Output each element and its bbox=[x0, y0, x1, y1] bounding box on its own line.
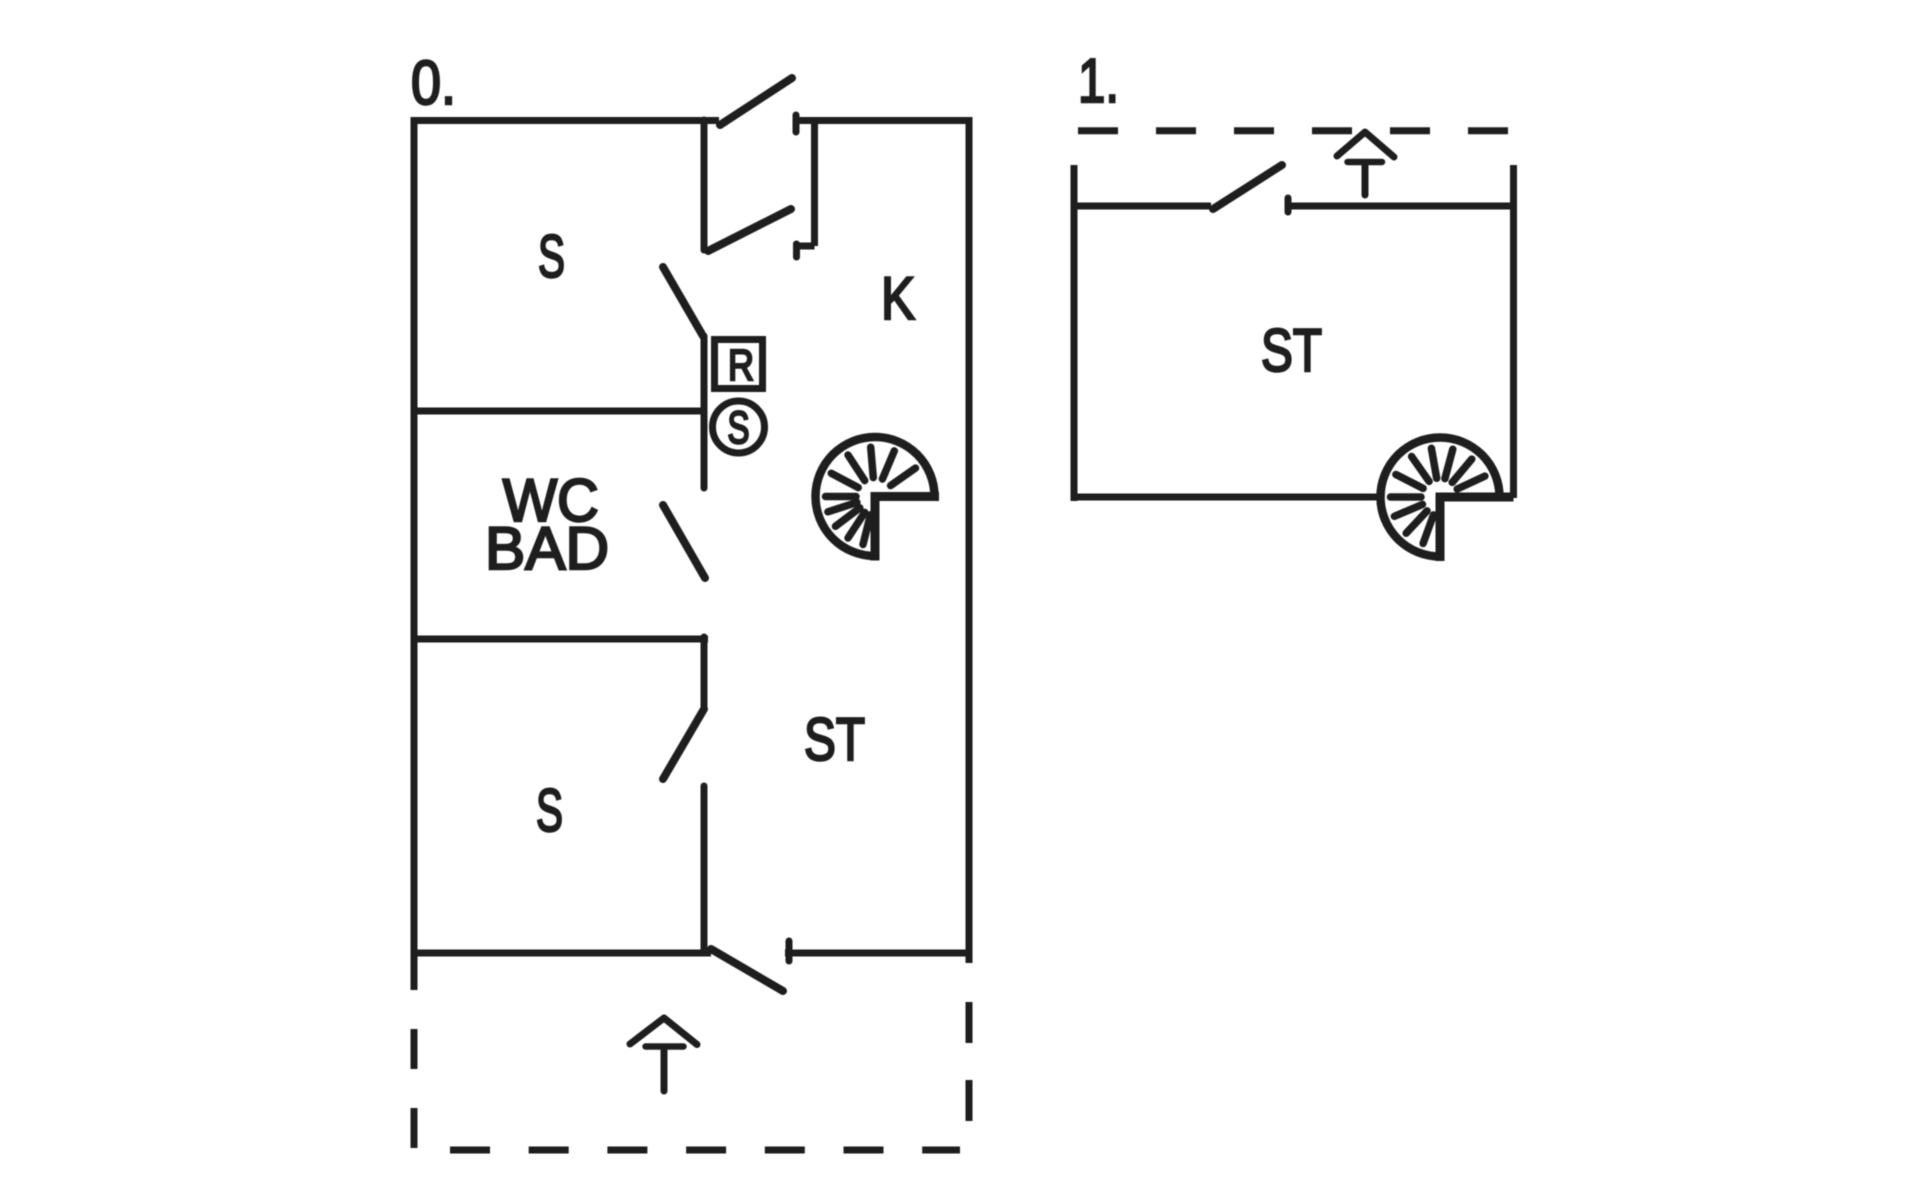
svg-text:BAD: BAD bbox=[485, 515, 609, 582]
top wall plan1 (left of door) bbox=[1074, 203, 1211, 210]
top dashed wall plan1 bbox=[1078, 127, 1509, 134]
door frame tick plan1 bbox=[1285, 198, 1292, 212]
bottom outer wall plan0 (right of entry) bbox=[785, 950, 969, 957]
spiral staircase plan0: treads bbox=[826, 447, 916, 544]
kitchen partition end tick bbox=[793, 244, 800, 257]
divider wall WC BAD / S bottom bbox=[411, 636, 708, 643]
interior corridor wall segment 2 bbox=[701, 336, 708, 488]
interior corridor wall segment 3 bbox=[701, 637, 708, 708]
spiral staircase plan0: notch edges bbox=[875, 497, 939, 561]
door leaf bottom entrance bbox=[711, 949, 783, 991]
svg-text:R: R bbox=[728, 341, 754, 390]
spiral staircase plan0: outer arc bbox=[816, 437, 935, 556]
door leaf bedroom S bottom bbox=[663, 709, 704, 779]
left outer wall plan1 bbox=[1071, 165, 1078, 501]
spiral staircase plan1: notch edges bbox=[1440, 497, 1514, 561]
svg-text:ST: ST bbox=[1261, 317, 1322, 384]
entrance arrow plan0: T stem bbox=[661, 1049, 668, 1091]
door leaf hall/kitchen bbox=[708, 209, 791, 251]
left outer wall plan0 bbox=[411, 117, 418, 990]
divider wall S / WC BAD bbox=[411, 408, 704, 415]
symbol circle S bbox=[713, 401, 765, 453]
interior corridor wall segment 4 bbox=[701, 786, 708, 953]
top wall plan1 (right of door) bbox=[1285, 203, 1514, 210]
door frame tick bottom wall bbox=[786, 941, 793, 961]
entrance arrow plan1: T bar bbox=[1348, 159, 1383, 166]
top outer wall plan0 (right of entry door) bbox=[793, 117, 969, 124]
svg-text:S: S bbox=[538, 223, 565, 290]
radiator box R bbox=[715, 340, 763, 389]
door leaf WC BAD bbox=[663, 505, 705, 578]
entrance arrow plan1: T stem bbox=[1362, 164, 1369, 195]
right dashed terrace wall bbox=[966, 1002, 973, 1122]
right outer wall plan0 bbox=[966, 117, 973, 963]
svg-text:ST: ST bbox=[804, 706, 865, 773]
svg-text:S: S bbox=[728, 402, 750, 453]
bottom dashed terrace wall bbox=[450, 1147, 960, 1154]
svg-text:1.: 1. bbox=[1078, 47, 1119, 116]
bottom outer wall plan0 (left of entry) bbox=[411, 950, 711, 957]
spiral staircase plan1: treads bbox=[1391, 448, 1485, 543]
door leaf plan1 bbox=[1213, 165, 1282, 209]
svg-text:S: S bbox=[536, 777, 563, 844]
kitchen partition vertical bbox=[811, 120, 818, 246]
spiral staircase plan1: outer arc bbox=[1381, 438, 1500, 557]
svg-text:0.: 0. bbox=[411, 49, 456, 118]
interior corridor wall segment 1 bbox=[701, 120, 708, 250]
entrance arrow plan1: chevron bbox=[1337, 132, 1394, 157]
left dashed terrace wall bbox=[411, 1029, 418, 1148]
svg-text:K: K bbox=[881, 265, 915, 332]
door frame tick top wall bbox=[793, 115, 800, 132]
entrance arrow plan0: chevron bbox=[630, 1018, 697, 1045]
right outer wall plan1 bbox=[1510, 165, 1517, 498]
bottom wall plan1 bbox=[1074, 494, 1378, 501]
door leaf bedroom S top bbox=[663, 267, 703, 336]
door leaf top entry bbox=[720, 78, 792, 125]
kitchen partition bottom lip bbox=[793, 243, 815, 250]
top outer wall plan0 (left of entry door) bbox=[411, 117, 719, 124]
entrance arrow plan0: T bar bbox=[646, 1043, 684, 1050]
